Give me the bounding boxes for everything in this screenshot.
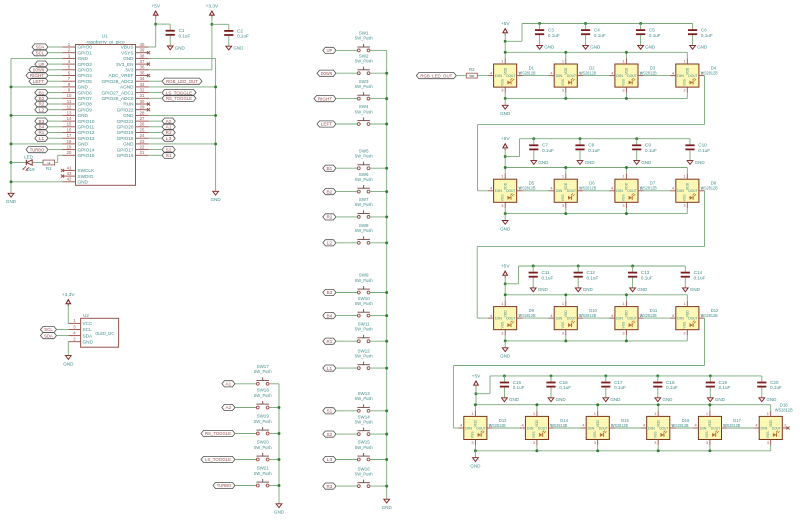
wire SW13 to bus xyxy=(370,410,387,412)
svg-text:VDD: VDD xyxy=(708,419,712,427)
wire D16 VDD stem xyxy=(657,405,659,411)
svg-text:GND: GND xyxy=(610,397,621,402)
raspberry pi pico U1 body xyxy=(76,34,136,186)
U1 pin 26 (GPIO20) xyxy=(117,122,149,130)
power flag +5V (row D1) xyxy=(501,21,510,35)
wire jog to cap rail (row D5) xyxy=(505,139,519,157)
wire cap rail (row D1) xyxy=(522,23,693,25)
svg-text:26: 26 xyxy=(140,122,145,127)
global label B1 (U1 pin 9) xyxy=(35,90,48,96)
svg-text:3: 3 xyxy=(683,203,685,208)
wire VSS rail (row D9) xyxy=(505,340,687,342)
resistor R1 xyxy=(43,160,55,171)
svg-text:SW_Push: SW_Push xyxy=(355,84,373,89)
ground GND of C11 xyxy=(530,287,548,292)
U1 pin 2 (GPIO1) xyxy=(63,48,93,56)
junction VDD rail at D3 xyxy=(625,51,628,54)
ground GND of C3 xyxy=(537,45,555,50)
wire D14 VDD stem xyxy=(536,405,538,411)
junction VSS rail at D11 xyxy=(625,339,628,342)
WS2812B LED D2 xyxy=(549,58,597,93)
svg-text:SW_Push: SW_Push xyxy=(355,471,373,476)
svg-text:R1: R1 xyxy=(39,130,45,135)
svg-text:27: 27 xyxy=(140,116,145,121)
svg-text:VDD: VDD xyxy=(625,310,629,318)
junction cap rail at C19 xyxy=(709,374,712,377)
wire rail to LED D19 xyxy=(11,162,26,164)
wire SW15 to bus xyxy=(370,459,387,461)
capacitor C18 xyxy=(653,376,678,398)
ground GND of C17 xyxy=(603,397,621,402)
global label LEFT (U1 pin 7) xyxy=(29,78,48,84)
power flag +5V (U1) xyxy=(151,3,160,17)
svg-text:B1: B1 xyxy=(327,166,333,171)
svg-text:VDD: VDD xyxy=(503,182,507,190)
wire SW20 to bus xyxy=(269,459,279,461)
svg-text:GND: GND xyxy=(509,397,520,402)
ground GND (row D9) xyxy=(500,348,511,359)
svg-text:0.1uF: 0.1uF xyxy=(559,385,571,390)
junction +5V jog (row D5) xyxy=(504,155,507,158)
U1 pin 18 (GND) xyxy=(63,139,89,147)
wire D16 DOUT to D17 DIN xyxy=(676,427,693,429)
svg-text:GPIO6: GPIO6 xyxy=(78,90,93,95)
wire D5 DOUT to D6 DIN xyxy=(523,190,549,192)
wire label S1 to SW13 xyxy=(336,410,357,412)
svg-text:VDD: VDD xyxy=(564,67,568,75)
svg-text:DOUT: DOUT xyxy=(599,426,609,430)
svg-text:GND: GND xyxy=(63,361,74,366)
svg-text:3: 3 xyxy=(471,440,473,445)
wire label L1 to U1 pin 17 xyxy=(48,137,63,139)
push-button switch SW12 xyxy=(355,348,373,369)
global label SDA (U2 SDA) xyxy=(41,333,57,339)
svg-text:DIN: DIN xyxy=(495,317,502,321)
svg-text:WS2812B: WS2812B xyxy=(672,423,689,428)
junction cap rail at C9 xyxy=(635,137,638,140)
svg-text:SW_Push: SW_Push xyxy=(355,327,373,332)
svg-text:VSS: VSS xyxy=(766,431,770,439)
wire D11 VSS stem xyxy=(625,335,627,341)
svg-text:1: 1 xyxy=(562,58,564,63)
svg-text:0.1uF: 0.1uF xyxy=(701,33,713,38)
wire VDD rail (row D5) xyxy=(505,167,687,169)
svg-text:RGB_LED_OUT: RGB_LED_OUT xyxy=(166,79,198,84)
svg-text:DOUT: DOUT xyxy=(627,317,637,321)
svg-text:R2: R2 xyxy=(39,102,45,107)
wire VBUS wire xyxy=(149,16,156,47)
ground U2 GND xyxy=(63,356,74,367)
svg-text:UP: UP xyxy=(327,48,333,53)
svg-text:SW_Push: SW_Push xyxy=(355,396,373,401)
wire cap rail (row D13) xyxy=(490,375,762,377)
push-button switch SW11 xyxy=(355,321,373,342)
U1 pin 38 (GND) xyxy=(123,53,148,61)
svg-text:DOUT: DOUT xyxy=(659,426,669,430)
capacitor C2 xyxy=(224,24,249,46)
svg-text:DOUT: DOUT xyxy=(567,189,577,193)
no-connect D18 DOUT open xyxy=(786,426,789,429)
svg-text:UP: UP xyxy=(39,62,45,67)
svg-text:1: 1 xyxy=(706,411,708,416)
svg-text:RIGHT: RIGHT xyxy=(30,73,45,78)
svg-text:GND: GND xyxy=(662,397,673,402)
svg-text:GND: GND xyxy=(470,464,481,469)
svg-text:+5V: +5V xyxy=(501,136,510,142)
svg-text:3: 3 xyxy=(562,88,564,93)
wire SW21 to bus xyxy=(269,485,279,487)
WS2812B LED D11 xyxy=(609,301,658,336)
junction VSS rail at D10 xyxy=(564,339,567,342)
wire U1 pin 18 GND to rail xyxy=(11,143,63,145)
svg-text:GPIO1: GPIO1 xyxy=(78,50,93,55)
svg-text:3: 3 xyxy=(706,440,708,445)
U1 pin 3 (GND) xyxy=(63,53,89,61)
no-connect U1 pin 37 xyxy=(147,63,150,66)
U1 pin 4 (GPIO2) xyxy=(63,59,93,67)
svg-text:VSS: VSS xyxy=(561,321,565,329)
wire R2 to D1 DIN xyxy=(477,75,488,77)
svg-text:SW_Push: SW_Push xyxy=(254,445,272,450)
svg-text:DOWN: DOWN xyxy=(321,71,333,76)
svg-text:DIN: DIN xyxy=(495,74,502,78)
svg-text:0.1uF: 0.1uF xyxy=(641,275,653,280)
svg-text:WS2812B: WS2812B xyxy=(701,70,718,75)
svg-text:VSS: VSS xyxy=(622,194,626,202)
svg-text:DIN: DIN xyxy=(495,189,502,193)
wire VSS rail (row D13) xyxy=(475,450,770,452)
ground GND of C6 xyxy=(690,45,708,50)
global label RGB_LED_OUT (RGB_LED_OUT (LED chain)) xyxy=(416,73,456,79)
svg-text:C20: C20 xyxy=(770,380,779,385)
svg-text:R2: R2 xyxy=(469,67,475,72)
junction VDD rail at D14 xyxy=(535,403,538,406)
svg-text:VSS: VSS xyxy=(593,431,597,439)
svg-text:GND: GND xyxy=(645,45,656,50)
push-button switch SW5 xyxy=(355,148,373,169)
U1 pin 40 (VBUS) xyxy=(121,42,149,50)
junction cap rail at C17 xyxy=(604,374,607,377)
svg-text:SW_Push: SW_Push xyxy=(355,109,373,114)
U1 pin 17 (GPIO13) xyxy=(63,133,95,141)
svg-text:GND: GND xyxy=(83,339,94,344)
junction VDD rail at D9 xyxy=(504,293,507,296)
wire VDD rail (row D1) xyxy=(505,51,687,53)
wire D5 VSS stem xyxy=(504,208,506,214)
svg-text:0.1uF: 0.1uF xyxy=(594,33,606,38)
svg-text:22: 22 xyxy=(140,145,145,150)
wire 3V3 wire xyxy=(149,16,212,70)
U1 pin 30 (RUN) xyxy=(123,99,148,107)
svg-text:0.1uF: 0.1uF xyxy=(698,148,710,153)
svg-text:VSS: VSS xyxy=(705,431,709,439)
junction VDD rail at D6 xyxy=(564,166,567,169)
svg-text:LEFT: LEFT xyxy=(321,122,333,127)
junction left rail pin18 xyxy=(10,142,13,145)
WS2812B LED D14 xyxy=(520,411,569,445)
svg-text:SW_Push: SW_Push xyxy=(355,36,373,41)
U2 pin 2 (GND) xyxy=(68,337,93,345)
svg-text:0.1uF: 0.1uF xyxy=(719,385,731,390)
svg-text:39: 39 xyxy=(140,48,145,53)
wire U1 pin 13 GND to rail xyxy=(11,114,63,116)
svg-text:24: 24 xyxy=(140,133,145,138)
svg-text:3V3: 3V3 xyxy=(125,68,134,73)
svg-text:C18: C18 xyxy=(666,380,675,385)
wire label B4 to SW10 xyxy=(336,315,357,317)
wire D13 VSS stem xyxy=(474,445,476,451)
svg-text:GND: GND xyxy=(544,45,555,50)
svg-text:LS_TOGGLE: LS_TOGGLE xyxy=(166,90,192,95)
junction cap rail at C15 xyxy=(503,374,506,377)
junction +3.3V/C2 xyxy=(210,23,213,26)
svg-text:SW_Push: SW_Push xyxy=(254,393,272,398)
wire VDD rail (row D13) xyxy=(476,404,771,406)
svg-text:AGND: AGND xyxy=(120,85,134,90)
svg-text:21: 21 xyxy=(140,150,145,155)
ground GND of C14 xyxy=(682,287,700,292)
wire label L2 to U1 pin 12 xyxy=(48,109,63,111)
junction bus at SW11 xyxy=(385,340,388,343)
junction bus at SW15 xyxy=(385,458,388,461)
wire D9 VSS stem xyxy=(504,335,506,341)
WS2812B LED D9 xyxy=(488,301,536,336)
junction bus2 at SW18 xyxy=(278,406,281,409)
wire U1 to label L3 xyxy=(149,137,163,139)
wire label UP to SW1 xyxy=(336,49,357,51)
svg-text:0.1uF: 0.1uF xyxy=(614,385,626,390)
WS2812B LED D18 xyxy=(754,403,793,446)
svg-text:C7: C7 xyxy=(542,143,548,148)
wire D7 DOUT to D8 DIN xyxy=(644,190,670,192)
svg-text:1: 1 xyxy=(562,174,564,179)
global label TURBO (SW21) xyxy=(213,482,235,488)
junction bus at SW12 xyxy=(385,367,388,370)
svg-text:GPIO9: GPIO9 xyxy=(78,107,93,112)
svg-text:raspberry_pi_pico: raspberry_pi_pico xyxy=(87,39,126,44)
svg-text:GPIO15: GPIO15 xyxy=(78,153,95,158)
svg-text:GPIO12: GPIO12 xyxy=(78,130,95,135)
global label RIGHT (SW3) xyxy=(314,96,336,102)
svg-text:3V3_EN: 3V3_EN xyxy=(116,62,133,67)
wire SW19 to bus xyxy=(269,433,279,435)
wire U2 GND wire xyxy=(67,342,69,356)
push-button switch SW15 xyxy=(355,440,373,461)
wire switch column GND bus xyxy=(386,50,388,499)
wire D9 DOUT to D10 DIN xyxy=(523,317,549,319)
svg-text:GND: GND xyxy=(690,287,701,292)
svg-text:SW_Push: SW_Push xyxy=(355,59,373,64)
junction VDD rail at D1 xyxy=(504,51,507,54)
push-button switch SW2 xyxy=(355,53,373,74)
svg-text:WS2812B: WS2812B xyxy=(640,70,657,75)
svg-text:VSYS: VSYS xyxy=(121,50,134,55)
global label RGB_LED_OUT (U1 pin 34) xyxy=(162,78,202,84)
svg-text:SCL: SCL xyxy=(36,50,45,55)
svg-text:GND: GND xyxy=(538,160,549,165)
svg-text:WS2812B: WS2812B xyxy=(550,423,567,428)
wire U1 pin28 GND wire xyxy=(149,114,216,116)
svg-text:VDD: VDD xyxy=(474,419,478,427)
svg-text:L3: L3 xyxy=(327,457,333,462)
junction VDD rail at D10 xyxy=(564,293,567,296)
svg-text:DIN: DIN xyxy=(616,317,623,321)
svg-text:C12: C12 xyxy=(587,270,596,275)
svg-text:C3: C3 xyxy=(548,28,554,33)
capacitor C10 xyxy=(685,139,710,161)
svg-text:3: 3 xyxy=(622,330,624,335)
svg-text:SDA: SDA xyxy=(44,333,53,338)
junction right rail pin23 xyxy=(214,142,217,145)
junction cap rail at C5 xyxy=(639,22,642,25)
svg-text:+3.3V: +3.3V xyxy=(206,3,219,9)
wire SW9 to bus xyxy=(370,292,387,294)
wire VSS rail (row D5) xyxy=(505,213,687,215)
U1 pin 24 (GPIO18) xyxy=(117,133,149,141)
svg-text:GND: GND xyxy=(637,287,648,292)
push-button switch SW13 xyxy=(355,391,373,412)
svg-text:VCC: VCC xyxy=(83,321,94,326)
push-button switch SW8 xyxy=(355,223,373,244)
wire label R3 to SW16 xyxy=(336,485,357,487)
U1 pin 13 (GND) xyxy=(63,110,89,118)
svg-text:L2: L2 xyxy=(327,241,333,246)
wire label R1 to SW11 xyxy=(336,340,357,342)
wire D17 VDD stem xyxy=(709,405,711,411)
U1 pin 37 (3V3_EN) xyxy=(116,59,148,67)
svg-text:DIN: DIN xyxy=(556,189,563,193)
svg-text:VSS: VSS xyxy=(622,78,626,86)
svg-text:SCL: SCL xyxy=(83,327,93,332)
wire D15 DOUT to D16 DIN xyxy=(615,427,641,429)
wire D5 VDD stem xyxy=(504,168,506,174)
svg-text:WS2812B: WS2812B xyxy=(701,313,718,318)
wire U1 to label S2 xyxy=(149,149,163,151)
svg-text:GND: GND xyxy=(6,199,17,204)
svg-text:R2: R2 xyxy=(327,215,333,220)
junction VSS rail at D17 xyxy=(708,449,711,452)
power flag +5V (row D5) xyxy=(501,136,510,150)
global label DOWN (SW2) xyxy=(317,70,336,76)
svg-text:RGB_LED_OUT: RGB_LED_OUT xyxy=(420,73,452,78)
svg-text:0.1uF: 0.1uF xyxy=(542,148,554,153)
wire D13 DOUT to D14 DIN xyxy=(493,427,520,429)
svg-text:1: 1 xyxy=(683,58,685,63)
svg-text:D19: D19 xyxy=(26,167,35,172)
svg-text:1: 1 xyxy=(501,301,503,306)
svg-text:VDD: VDD xyxy=(625,182,629,190)
svg-text:VSS: VSS xyxy=(500,78,504,86)
svg-text:U2: U2 xyxy=(83,313,89,318)
ground aux bus GND xyxy=(274,504,285,515)
U1 pin 28 (GND) xyxy=(123,110,148,118)
wire D6 DOUT to D7 DIN xyxy=(583,190,609,192)
svg-text:38: 38 xyxy=(140,53,145,58)
svg-text:3: 3 xyxy=(501,88,503,93)
svg-text:B1: B1 xyxy=(39,90,45,95)
svg-text:S1: S1 xyxy=(166,153,172,158)
wire D17 DOUT to D18 DIN xyxy=(727,427,753,429)
svg-text:WS2812B: WS2812B xyxy=(489,423,506,428)
wire SW12 to bus xyxy=(370,367,387,369)
svg-text:R3: R3 xyxy=(166,130,172,135)
wire D1 DOUT to D2 DIN xyxy=(523,75,549,77)
svg-text:L1: L1 xyxy=(39,136,45,141)
wire R1 to U1 pin 20 xyxy=(55,155,63,162)
svg-text:WS2812B: WS2812B xyxy=(775,408,793,413)
power flag +3.3V (U2) xyxy=(62,292,75,306)
global label R2 (SW7) xyxy=(323,214,336,220)
svg-text:C8: C8 xyxy=(588,143,594,148)
wire label A1 to SW17 xyxy=(235,383,258,385)
power flag +5V (row D13) xyxy=(472,373,481,387)
U1 pin 20 (GPIO15) xyxy=(63,150,95,158)
svg-text:3: 3 xyxy=(562,203,564,208)
junction bus at SW2 xyxy=(385,72,388,75)
svg-text:1: 1 xyxy=(622,174,624,179)
svg-text:GND: GND xyxy=(78,142,89,147)
junction cap rail at C8 xyxy=(579,137,582,140)
svg-text:3: 3 xyxy=(622,88,624,93)
svg-text:GPIO27_ADC1: GPIO27_ADC1 xyxy=(101,90,133,95)
junction +5V jog (row D1) xyxy=(504,40,507,43)
wire D2 DOUT to D3 DIN xyxy=(583,75,609,77)
svg-text:SW_Push: SW_Push xyxy=(355,177,373,182)
wire U1 to label LS_TOGGLE xyxy=(149,92,163,94)
svg-text:VDD: VDD xyxy=(656,419,660,427)
svg-text:2: 2 xyxy=(784,423,786,428)
U1 pin 35 (ADC_VREF) xyxy=(108,70,148,78)
push-button switch SW18 xyxy=(254,388,272,409)
svg-text:GND: GND xyxy=(583,287,594,292)
wire +3.3V to C2 xyxy=(212,23,229,25)
junction cap rail at C3 xyxy=(538,22,541,25)
push-button switch SW7 xyxy=(355,197,373,218)
global label A2 (U1 pin 27) xyxy=(162,118,175,124)
svg-text:41: 41 xyxy=(67,165,72,170)
wire SW14 to bus xyxy=(370,433,387,435)
capacitor C12 xyxy=(574,266,599,288)
svg-text:VDD: VDD xyxy=(564,182,568,190)
svg-text:37: 37 xyxy=(140,59,145,64)
global label DOWN (U1 pin 5) xyxy=(29,67,48,73)
wire SW6 to bus xyxy=(370,191,387,193)
no-connect U1 pin 39 xyxy=(147,51,150,54)
ground GND of C20 xyxy=(759,397,777,402)
wire label A2 to SW18 xyxy=(235,407,258,409)
svg-text:WS2812B: WS2812B xyxy=(640,313,657,318)
wire D15 VSS stem xyxy=(597,445,599,451)
svg-text:0.1uF: 0.1uF xyxy=(548,33,560,38)
svg-text:GND: GND xyxy=(697,45,708,50)
wire +5V stem (row D5) xyxy=(504,147,506,167)
svg-text:C6: C6 xyxy=(701,28,707,33)
svg-text:S1: S1 xyxy=(327,409,333,414)
global label SCL (U1 pin 2) xyxy=(32,50,48,56)
svg-text:DOUT: DOUT xyxy=(688,189,698,193)
ground GND of C13 xyxy=(630,287,648,292)
svg-text:GND: GND xyxy=(641,160,652,165)
junction VSS rail at D16 xyxy=(657,449,660,452)
push-button switch SW1 xyxy=(355,31,373,52)
svg-text:WS2812B: WS2812B xyxy=(579,313,596,318)
svg-text:GND: GND xyxy=(590,45,601,50)
ground GND of C10 xyxy=(687,160,705,165)
push-button switch SW6 xyxy=(355,172,373,193)
global label A2 (SW18) xyxy=(222,404,235,410)
global label L1 (U1 pin 17) xyxy=(35,135,48,141)
svg-text:1: 1 xyxy=(562,301,564,306)
